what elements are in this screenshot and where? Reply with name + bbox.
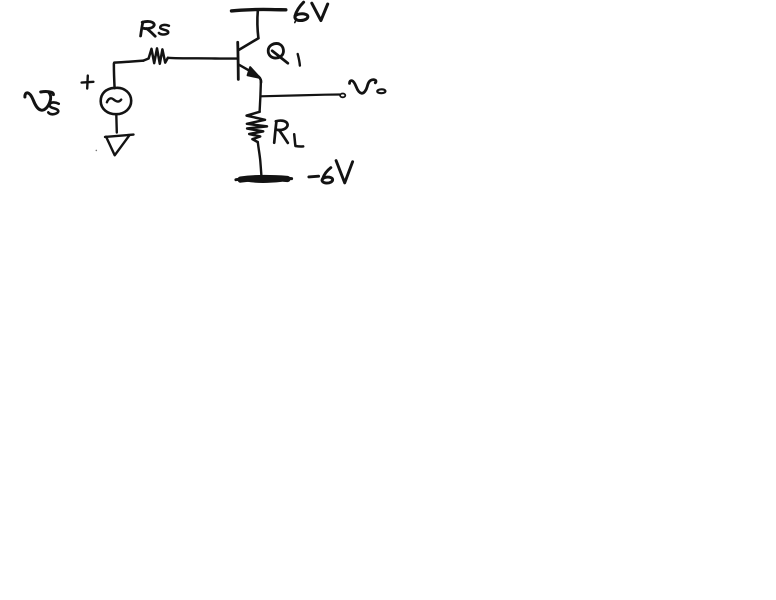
label Q1 (268, 43, 300, 65)
wire below source (115, 114, 118, 132)
label v_s (25, 91, 59, 114)
ground triangle (105, 135, 134, 137)
wire Rs to base of Q1 (168, 57, 237, 60)
resistor RL (vertical scribble) (247, 112, 267, 142)
stray dot (96, 150, 98, 152)
emitter vertical wire (260, 80, 261, 112)
tilde inside source (107, 98, 121, 102)
label Rs (141, 21, 169, 36)
collector wire up to rail (256, 11, 260, 38)
source Vs circle (101, 88, 132, 114)
negative rail bar (236, 178, 292, 180)
transistor Q1 emitter diagonal (239, 65, 252, 72)
emitter arrowhead (248, 67, 260, 78)
power rail 6V bar (232, 9, 286, 10)
label -6V (309, 161, 353, 183)
resistor Rs (143, 48, 168, 63)
transistor Q1 collector diagonal (239, 38, 258, 50)
label v_o (350, 80, 386, 94)
label RL (274, 121, 303, 147)
wire RL to -6V rail (258, 142, 262, 177)
emitter hook into vertical wire (259, 77, 261, 83)
transistor Q1 base bar (236, 42, 239, 79)
wire from source top to resistor Rs (114, 61, 144, 89)
label 6V top (295, 2, 328, 22)
output terminal circle (340, 94, 345, 98)
plus sign of source (82, 76, 94, 89)
output wire (260, 95, 339, 97)
